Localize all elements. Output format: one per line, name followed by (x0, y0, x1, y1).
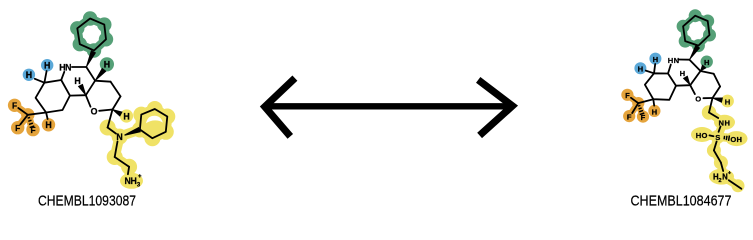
left molecule: phenyl ring (77, 19, 106, 51)
right molecule: green highlight on phenyl ring + stereo H (685, 41, 698, 46)
svg-text:H: H (74, 76, 80, 86)
left molecule: blue H bonds and labels (44, 71, 46, 83)
svg-text:+: + (728, 170, 732, 176)
svg-text:H: H (737, 135, 742, 144)
right molecule: wedge C2'-H (yellow) and label (712, 98, 723, 103)
double-headed arrow (267, 103, 512, 109)
svg-text:N: N (65, 62, 71, 72)
left molecule: blue highlight on two H atoms (41, 59, 53, 71)
right molecule: chain C2'-CH2-NH (709, 98, 713, 113)
svg-text:H: H (704, 58, 709, 67)
right molecule: piperidine ring bonds (668, 65, 671, 74)
left molecule: wedge N-cyclohexyl (124, 127, 141, 136)
left molecule: yellow highlight on amine chain + cyclohexyl ring (140, 115, 141, 130)
left molecule: CF3 bonds and F labels (28, 113, 46, 115)
svg-text:H: H (725, 97, 730, 106)
right molecule: wedge C2-phenyl (689, 45, 700, 60)
svg-text:F: F (641, 113, 646, 122)
svg-text:H: H (45, 120, 51, 130)
right molecule: orange highlight on CF3 group and ring H (627, 95, 638, 103)
svg-text:H: H (123, 111, 129, 121)
svg-text:H: H (44, 61, 50, 71)
left molecule: cyclohexane ring (CF3 ring) (36, 80, 70, 113)
svg-text:O: O (730, 135, 736, 144)
left molecule: orange highlight on CF3 group and ring H (15, 105, 28, 115)
right molecule: wedge C10b-H + H label (683, 76, 691, 86)
left molecule: cyclohexyl ring (140, 109, 167, 138)
svg-text:O: O (701, 131, 707, 140)
svg-text:N: N (674, 56, 679, 65)
right molecule: hash wedge S-OH(right) + OH label (723, 136, 726, 140)
right molecule: yellow highlight on sulfonamide chain (709, 113, 724, 123)
svg-text:H: H (653, 55, 658, 64)
left molecule: piperidine ring bonds (61, 72, 64, 80)
svg-text:H: H (696, 131, 701, 140)
svg-text:H: H (668, 56, 673, 65)
svg-text:S: S (715, 133, 720, 142)
right molecule: chain S-CH2-CH2 (714, 142, 717, 151)
right molecule: CF3 bonds and F labels (638, 99, 653, 103)
right molecule: blue H bonds and labels (654, 64, 655, 73)
right molecule: phenyl ring (683, 16, 709, 46)
svg-text:F: F (12, 101, 17, 111)
svg-text:F: F (30, 125, 35, 135)
left molecule: chain N-CH2-CH2-NH3+ (115, 142, 118, 158)
svg-text:O: O (695, 95, 701, 104)
svg-text:F: F (15, 123, 20, 133)
left molecule: chain bonds C2'-CH2-N (108, 110, 113, 128)
svg-text:H: H (26, 70, 32, 80)
svg-text:H: H (680, 69, 685, 78)
svg-text:H: H (724, 119, 729, 128)
right molecule: bond S-OH(left) + HO label (710, 134, 714, 137)
right molecule: wedge C4a-H (green) (700, 64, 706, 71)
svg-text:+: + (138, 174, 142, 180)
left molecule: pyran ring bonds (95, 81, 111, 82)
svg-text:H: H (652, 107, 657, 116)
svg-text:N: N (116, 132, 122, 142)
right molecule: bond N-CH3 (729, 180, 742, 189)
left molecule: orange H bond and label (46, 113, 48, 120)
right molecule: pyran ring bonds (701, 71, 714, 74)
left molecule: wedge C4a-H (green) (95, 68, 107, 81)
right molecule: bond CH2-NH2+ (721, 163, 723, 171)
svg-text:CHEMBL1093087: CHEMBL1093087 (38, 192, 136, 209)
left molecule: wedge C10b-H (black label) (78, 84, 86, 96)
right molecule: bond NH-S (719, 127, 721, 132)
left molecule: wedge C2'-H (yellow) and label (112, 109, 122, 117)
left molecule: wedge C2-phenyl (86, 50, 96, 67)
right molecule: orange H bond and label (652, 99, 655, 105)
svg-text:H: H (104, 60, 110, 70)
left molecule: green highlight on phenyl ring + stereo H (80, 44, 94, 50)
svg-text:O: O (91, 106, 98, 116)
svg-text:H: H (131, 176, 137, 186)
svg-text:F: F (625, 91, 630, 100)
svg-text:CHEMBL1084677: CHEMBL1084677 (631, 192, 732, 209)
right molecule: cyclohexane ring (CF3 ring) (645, 73, 676, 100)
svg-text:F: F (627, 113, 632, 122)
right molecule: blue highlight on two H atoms (649, 53, 661, 65)
svg-text:H: H (638, 65, 643, 74)
